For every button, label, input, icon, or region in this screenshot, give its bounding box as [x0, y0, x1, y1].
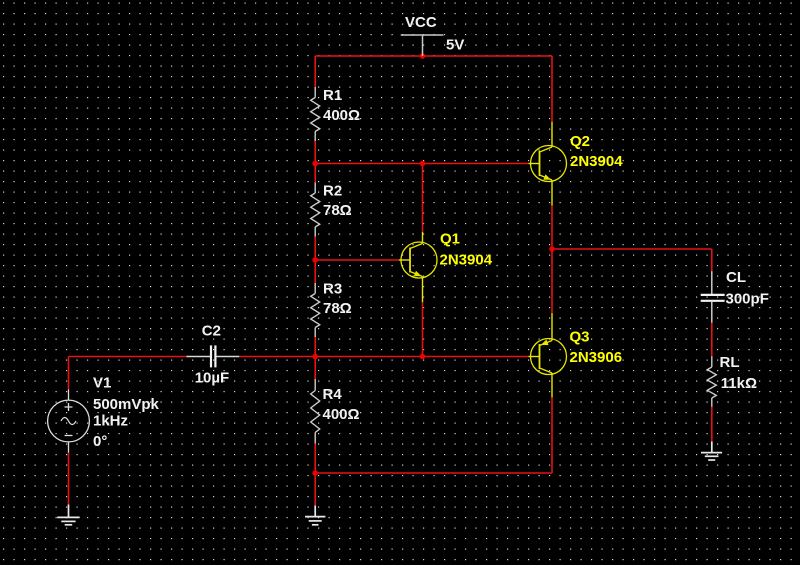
- svg-text:5V: 5V: [446, 37, 464, 54]
- transistor Q3 2N3906: [529, 313, 567, 397]
- wire node R2R3 to Q1 base: [315, 259, 399, 261]
- svg-text:10µF: 10µF: [195, 369, 230, 386]
- resistor R1: [311, 87, 320, 141]
- wire Q2 emitter to Q3 emitter: [551, 206, 553, 314]
- wire bottom net horizontal: [315, 472, 552, 474]
- resistor R3: [311, 283, 320, 337]
- node VCC tap junction: [420, 53, 426, 59]
- wire VCC tap to Q1 collector: [422, 164, 424, 233]
- svg-text:78Ω: 78Ω: [323, 300, 352, 317]
- wire left chain R4-bottom vertical: [314, 443, 316, 473]
- svg-text:11kΩ: 11kΩ: [721, 375, 757, 392]
- power VCC symbol: [401, 35, 444, 56]
- wire input net C2 to Q3 base: [239, 356, 528, 358]
- ground under R4 chain: [305, 506, 325, 525]
- svg-text:500mVpk: 500mVpk: [93, 396, 160, 413]
- wire CL top vertical: [711, 249, 713, 271]
- svg-text:0°: 0°: [93, 433, 107, 450]
- wire left chain R2-R3 vertical: [314, 236, 316, 284]
- wire top rail to Q2 collector: [551, 56, 553, 122]
- node output junction: [549, 246, 555, 252]
- node input net left junction: [312, 354, 318, 360]
- source V1: [48, 389, 90, 452]
- svg-text:CL: CL: [726, 269, 746, 286]
- wire node R1R2 to Q2 base: [315, 163, 528, 165]
- node Q1 collector tap junction: [420, 161, 426, 167]
- wire CL to RL vertical: [711, 323, 713, 356]
- svg-text:2N3904: 2N3904: [440, 252, 493, 269]
- node R1-R2 junction: [312, 161, 318, 167]
- svg-text:R1: R1: [323, 87, 342, 104]
- resistor R2: [311, 183, 320, 237]
- transistor Q2 2N3904: [529, 122, 567, 206]
- svg-text:2N3906: 2N3906: [570, 349, 623, 366]
- capacitor C2: [187, 345, 240, 367]
- svg-text:400Ω: 400Ω: [323, 406, 360, 423]
- wire output net horizontal: [552, 248, 712, 250]
- svg-text:400Ω: 400Ω: [323, 107, 360, 124]
- wire Q3 collector to bottom net: [551, 397, 553, 473]
- svg-text:Q1: Q1: [440, 230, 460, 247]
- svg-text:2N3904: 2N3904: [570, 153, 623, 170]
- wire left chain R1-R2 vertical: [314, 141, 316, 184]
- wire left chain R3-R4 vertical: [314, 337, 316, 380]
- resistor RL: [707, 356, 716, 407]
- svg-text:R3: R3: [323, 280, 342, 297]
- svg-text:C2: C2: [202, 323, 221, 340]
- wire V1 top vertical: [68, 357, 70, 390]
- wire top rail VCC net: [315, 55, 552, 57]
- svg-text:R2: R2: [323, 182, 342, 199]
- svg-text:1kHz: 1kHz: [93, 412, 128, 429]
- svg-text:Q3: Q3: [570, 329, 590, 346]
- transistor Q1 2N3904: [399, 232, 437, 302]
- svg-text:R4: R4: [323, 386, 343, 403]
- svg-text:RL: RL: [720, 354, 740, 371]
- node R2-R3 junction: [312, 257, 318, 263]
- ground under RL: [701, 442, 722, 461]
- wire V1 bottom to ground: [68, 453, 70, 505]
- wire Q1 emitter to input net: [422, 302, 424, 356]
- ground under V1: [57, 505, 79, 525]
- svg-text:78Ω: 78Ω: [323, 202, 352, 219]
- svg-text:300pF: 300pF: [726, 290, 769, 307]
- svg-text:VCC: VCC: [405, 14, 437, 31]
- wire input net V1 to C2: [69, 356, 187, 358]
- capacitor CL: [701, 271, 725, 323]
- node bottom net junction: [312, 470, 318, 476]
- svg-text:V1: V1: [93, 375, 111, 392]
- wire RL to ground vertical: [711, 407, 713, 442]
- resistor R4: [311, 379, 320, 444]
- wire left chain top vertical: [314, 56, 316, 88]
- svg-text:Q2: Q2: [570, 133, 590, 150]
- wire left chain to ground vertical: [314, 473, 316, 506]
- node Q1 emitter tap junction: [420, 354, 426, 360]
